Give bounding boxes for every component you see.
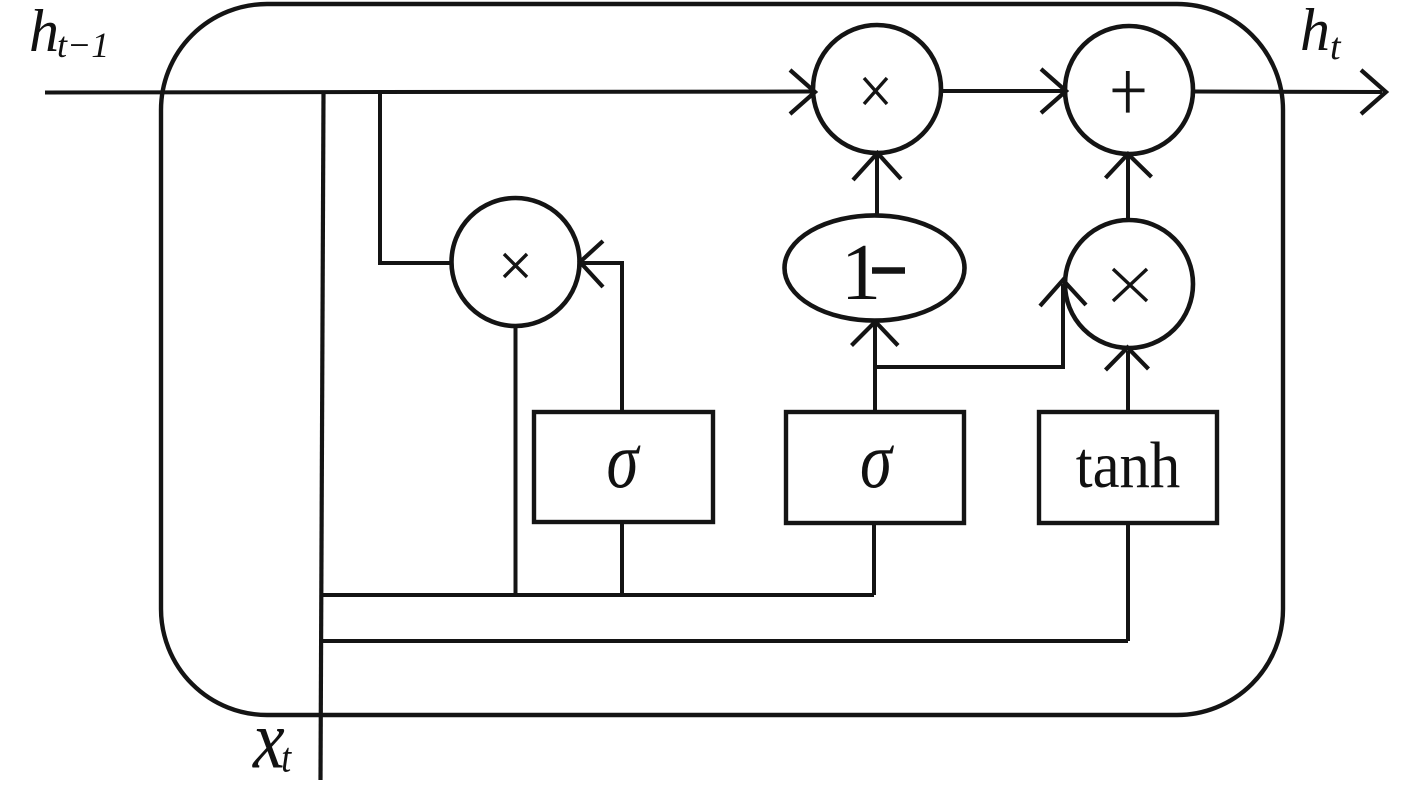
wire M3 output up to adder A1 — [1126, 157, 1130, 220]
wire M2 output down to bus 1 — [514, 326, 518, 595]
svg-text:σ: σ — [607, 415, 641, 504]
svg-text:ht−1: ht−1 — [29, 0, 109, 65]
plus symbol in A1 — [1113, 71, 1145, 113]
svg-text:ht: ht — [1300, 0, 1342, 68]
wire sigma S1 output up and left into M2 — [583, 263, 622, 412]
svg-text:xt: xt — [252, 693, 292, 786]
wire branch S2 to multiplier M3 — [875, 284, 1063, 367]
x symbol in M2 — [504, 254, 527, 277]
minus stroke in E1 — [872, 267, 905, 274]
wire S2 output down to bus 1 — [872, 523, 876, 595]
x symbol in M1 — [864, 78, 887, 104]
arrowhead into one-minus ellipse — [852, 322, 899, 346]
wire tanh input down to bus 2 — [1126, 523, 1130, 641]
wire h branch into multiplier M2 — [380, 92, 451, 263]
wire h input (left segment of main horizontal line) — [45, 92, 812, 93]
arrowhead into multiplier M1 — [790, 70, 815, 114]
arrowhead into A1 bottom — [1106, 154, 1152, 178]
wire tanh output up to M3 — [1126, 351, 1130, 413]
multiplier M3 (right x circle) — [1065, 220, 1193, 348]
GRU cell boundary (rounded rectangle) — [161, 4, 1283, 715]
bus wire 2 — [322, 639, 1128, 643]
sigma box S2 — [786, 412, 964, 523]
tanh box T1 — [1039, 412, 1217, 523]
wire S1 output down to bus 1 — [620, 522, 624, 595]
multiplier M1 (top x circle) — [813, 25, 941, 153]
arrowhead into M2 right side — [580, 241, 603, 287]
x symbol in M3 — [1113, 269, 1147, 301]
wire h_t output — [1193, 90, 1382, 95]
arrowhead into M3 lower-left — [1040, 280, 1086, 306]
multiplier M2 (left x circle) — [452, 198, 580, 326]
adder A1 (+ circle) — [1065, 26, 1193, 154]
bus wire 1 — [322, 593, 874, 597]
svg-text:tanh: tanh — [1076, 428, 1181, 502]
wire x_t vertical trunk — [321, 92, 324, 780]
sigma box S1 — [534, 412, 713, 522]
arrowhead into M3 bottom — [1106, 348, 1149, 371]
arrowhead into M1 bottom — [853, 153, 901, 180]
svg-text:σ: σ — [860, 415, 894, 504]
wire E1 output up to M1 — [875, 156, 879, 216]
one-minus ellipse E1 — [785, 215, 965, 320]
wire M1 to adder A1 — [941, 89, 1063, 93]
arrowhead into adder A1 — [1041, 69, 1066, 113]
wire S2 output up trunk — [873, 324, 877, 413]
arrowhead h_t output — [1361, 70, 1386, 114]
